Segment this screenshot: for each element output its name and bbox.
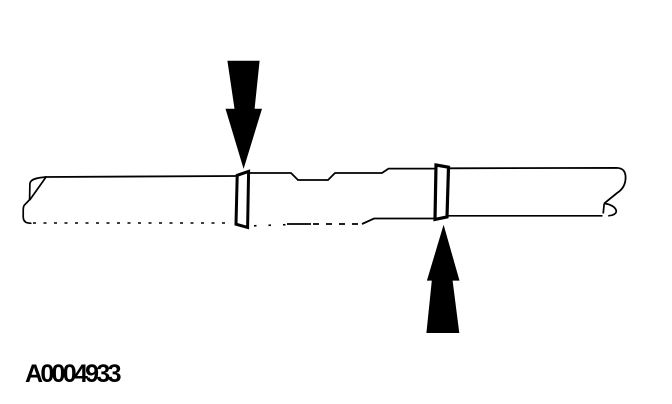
left tube top edge <box>45 176 237 177</box>
left marked band <box>236 171 249 227</box>
bottom arrow (pointing up at right band) <box>426 225 459 333</box>
right tube break leaf left edge <box>603 203 604 213</box>
mid section top profile <box>249 169 436 180</box>
mid section bottom dots near band <box>254 225 288 226</box>
left tube break squiggle <box>23 177 46 223</box>
mid section bottom edge <box>287 223 311 225</box>
right tube top edge with rounded end <box>449 168 626 204</box>
top arrow (pointing down at left band) <box>226 61 263 169</box>
right tube break leaf right edge <box>604 203 616 215</box>
figure id label <box>25 360 119 389</box>
mid section bottom dashed run <box>313 223 362 225</box>
mid section bottom step up <box>362 219 436 225</box>
left tube bottom edge (hidden dashed) <box>33 222 227 224</box>
right marked band <box>435 165 449 219</box>
right tube bottom edge <box>449 215 603 217</box>
